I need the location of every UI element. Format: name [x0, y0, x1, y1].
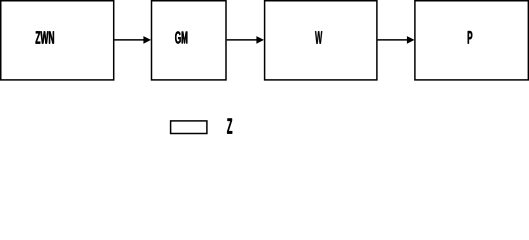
- block ZWN: [1, 1, 114, 80]
- wire arrow 3: [378, 36, 415, 44]
- legend box Z: [171, 118, 233, 133]
- block GM: [152, 1, 227, 80]
- label GM: [175, 31, 187, 43]
- block P: [415, 1, 528, 80]
- wire arrow 1: [114, 36, 151, 44]
- block W: [265, 1, 377, 80]
- wire arrow 2: [227, 36, 264, 44]
- label ZWN: [36, 31, 54, 43]
- label W: [315, 31, 322, 44]
- label P: [468, 31, 473, 44]
- legend label Z: [227, 118, 232, 133]
